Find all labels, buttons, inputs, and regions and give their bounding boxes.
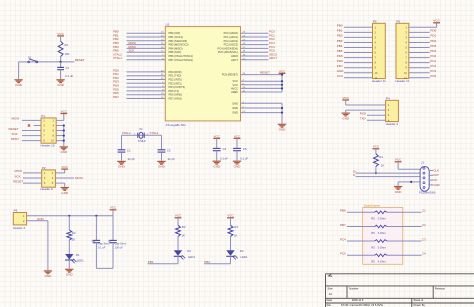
svg-text:22 pF: 22 pF [128, 157, 135, 161]
svg-text:PC4 (ADC4/SDA): PC4 (ADC4/SDA) [218, 46, 239, 50]
svg-text:GND: GND [232, 111, 238, 115]
svg-text:PD0 (RXD): PD0 (RXD) [169, 70, 182, 74]
svg-text:GND: GND [395, 190, 403, 194]
svg-text:AREF: AREF [231, 90, 238, 94]
svg-text:22 pF: 22 pF [168, 157, 175, 161]
svg-text:R5: R5 [371, 231, 375, 235]
svg-text:PC2 (ADC2): PC2 (ADC2) [224, 39, 239, 43]
svg-text:VCC: VCC [61, 109, 68, 113]
svg-text:MISO: MISO [15, 169, 23, 173]
svg-text:PD7 (AIN1): PD7 (AIN1) [169, 97, 182, 101]
svg-text:PD7: PD7 [113, 95, 119, 99]
svg-text:PC1 (ADC1): PC1 (ADC1) [224, 35, 239, 39]
svg-text:Header 6: Header 6 [41, 187, 54, 191]
svg-text:PD6: PD6 [337, 59, 343, 63]
svg-text:PC3: PC3 [430, 69, 436, 73]
svg-text:GND: GND [213, 165, 221, 169]
svg-text:PC6 (RESET): PC6 (RESET) [222, 73, 238, 77]
svg-text:Header 10: Header 10 [41, 144, 55, 148]
svg-text:GND: GND [61, 191, 69, 195]
svg-text:D-: D- [353, 173, 356, 177]
svg-text:PD2: PD2 [430, 39, 436, 43]
svg-text:PB0 (ICP): PB0 (ICP) [169, 31, 181, 35]
svg-text:RESET: RESET [260, 71, 270, 75]
svg-text:RESET: RESET [13, 179, 23, 183]
svg-text:Header 4: Header 4 [386, 122, 399, 126]
svg-text:C7: C7 [108, 239, 112, 243]
svg-text:100 uF: 100 uF [115, 245, 123, 249]
svg-text:C4: C4 [422, 252, 426, 256]
svg-text:GND: GND [37, 217, 45, 221]
svg-text:AVCC: AVCC [231, 86, 238, 90]
svg-text:D1: D1 [76, 253, 80, 257]
svg-text:PD1 (TXD): PD1 (TXD) [169, 74, 182, 78]
svg-text:S1: S1 [28, 56, 32, 60]
svg-text:XTAL1: XTAL1 [113, 56, 122, 60]
svg-text:RESET: RESET [75, 58, 85, 62]
svg-text:RXD: RXD [360, 112, 366, 116]
svg-text:GND: GND [60, 150, 68, 154]
svg-text:PD4 (XCK/T0): PD4 (XCK/T0) [169, 85, 186, 89]
svg-text:R5: R5 [371, 217, 375, 221]
svg-text:VCC: VCC [175, 214, 182, 218]
svg-text:ADC7: ADC7 [269, 56, 277, 60]
svg-text:PC0 (ADC0): PC0 (ADC0) [224, 31, 239, 35]
svg-text:VCC: VCC [110, 206, 117, 210]
svg-text:ATmega8L-8AI: ATmega8L-8AI [166, 123, 186, 127]
svg-text:PD4: PD4 [430, 49, 436, 53]
svg-text:PD5 (T1): PD5 (T1) [169, 89, 180, 93]
svg-text:PC1: PC1 [430, 59, 436, 63]
svg-text:GND: GND [337, 69, 345, 73]
svg-text:R3: R3 [234, 225, 238, 229]
svg-text:R4: R4 [379, 155, 383, 159]
svg-text:PD1: PD1 [430, 34, 436, 38]
svg-text:VCC: VCC [343, 96, 350, 100]
svg-text:10K: 10K [65, 52, 70, 56]
svg-text:SCK: SCK [12, 132, 18, 136]
svg-text:VCC: VCC [233, 79, 239, 83]
svg-text:GND: GND [45, 274, 53, 278]
svg-text:Title: Title [328, 274, 333, 278]
svg-text:C2: C2 [127, 148, 131, 152]
svg-text:PB1: PB1 [337, 29, 343, 33]
svg-text:PB7: PB7 [340, 223, 346, 227]
svg-text:LED1: LED1 [241, 255, 248, 259]
svg-text:PB2 (SS/OC1B): PB2 (SS/OC1B) [169, 39, 188, 43]
svg-text:PB7 (XTAL2/TOSC2): PB7 (XTAL2/TOSC2) [169, 58, 194, 62]
svg-text:VCC: VCC [234, 134, 241, 138]
svg-text:PB4 (MISO): PB4 (MISO) [169, 46, 183, 50]
svg-text:VCC: VCC [227, 214, 234, 218]
svg-text:2008-11-5: 2008-11-5 [352, 298, 364, 302]
svg-text:0.1 uF: 0.1 uF [220, 156, 228, 160]
svg-text:P6: P6 [396, 19, 400, 23]
svg-text:VCC: VCC [233, 83, 239, 87]
svg-text:XTAL2: XTAL2 [122, 131, 131, 135]
svg-text:Date: Date [327, 298, 333, 302]
svg-text:C1: C1 [422, 209, 426, 213]
svg-text:P5: P5 [373, 19, 377, 23]
svg-text:GND: GND [66, 273, 74, 277]
svg-text:PB5 (SCK): PB5 (SCK) [169, 50, 182, 54]
svg-text:RESET: RESET [9, 127, 19, 131]
svg-text:J1: J1 [421, 161, 424, 165]
svg-text:PD6 (AIN0): PD6 (AIN0) [169, 93, 182, 97]
svg-text:C2: C2 [422, 223, 426, 227]
svg-text:PB2: PB2 [337, 34, 343, 38]
svg-text:Header 2: Header 2 [13, 226, 26, 230]
svg-text:VCC: VCC [57, 32, 64, 36]
svg-text:PC3 (ADC3): PC3 (ADC3) [224, 43, 239, 47]
svg-text:ADC6: ADC6 [231, 54, 238, 58]
svg-text:NC: NC [433, 178, 437, 182]
svg-text:PD5: PD5 [337, 54, 343, 58]
svg-text:Revision: Revision [435, 287, 446, 291]
svg-text:1K: 1K [381, 164, 385, 168]
svg-text:1K: 1K [181, 234, 185, 238]
svg-text:GND: GND [232, 101, 238, 105]
svg-text:VCC: VCC [214, 134, 221, 138]
svg-text:PB6 (XTAL1/TOSC1): PB6 (XTAL1/TOSC1) [169, 54, 194, 58]
svg-text:P2: P2 [42, 166, 46, 170]
svg-text:0.1 uF: 0.1 uF [98, 245, 106, 249]
svg-text:A4: A4 [329, 292, 333, 296]
svg-text:VCC: VCC [373, 145, 380, 149]
svg-text:PD0: PD0 [430, 29, 436, 33]
svg-text:GND: GND [118, 165, 126, 169]
svg-text:PB1 (OC1A): PB1 (OC1A) [169, 35, 184, 39]
svg-text:C3: C3 [422, 237, 426, 241]
svg-text:GND: GND [15, 83, 23, 87]
svg-text:D2: D2 [240, 249, 244, 253]
svg-text:0 Ohm: 0 Ohm [378, 231, 387, 235]
svg-text:Size: Size [328, 287, 334, 291]
svg-text:R3: R3 [182, 225, 186, 229]
svg-text:D2: D2 [187, 249, 191, 253]
svg-text:PB3: PB3 [337, 39, 343, 43]
svg-text:C3: C3 [167, 148, 171, 152]
svg-text:VCC: VCC [62, 165, 69, 169]
svg-text:PB2: PB2 [204, 260, 210, 264]
svg-text:PD3: PD3 [430, 44, 436, 48]
svg-text:PC5 (ADC5/SCL): PC5 (ADC5/SCL) [218, 50, 238, 54]
svg-text:Sheet of: Sheet of [414, 298, 424, 302]
svg-text:PB0: PB0 [337, 24, 343, 28]
svg-text:1K: 1K [72, 238, 76, 242]
svg-text:SCK: SCK [129, 49, 135, 53]
svg-text:VCC: VCC [337, 74, 344, 78]
svg-text:VCC: VCC [433, 19, 440, 23]
svg-text:PC5: PC5 [430, 74, 436, 78]
svg-text:GND: GND [57, 83, 65, 87]
svg-text:PB4: PB4 [337, 44, 343, 48]
svg-text:P1: P1 [41, 114, 45, 118]
svg-text:Cap Semi: Cap Semi [115, 242, 127, 246]
svg-text:PC5: PC5 [340, 252, 346, 256]
svg-text:C5: C5 [243, 147, 247, 151]
svg-text:OptoSupres: OptoSupres [364, 203, 381, 207]
svg-text:PB3 (MOSI/OC2): PB3 (MOSI/OC2) [169, 43, 189, 47]
svg-text:C4: C4 [223, 147, 227, 151]
svg-text:TXD: TXD [360, 117, 366, 121]
svg-text:R2: R2 [72, 231, 76, 235]
svg-text:Header 11: Header 11 [396, 79, 410, 83]
svg-text:8 MHz: 8 MHz [138, 139, 146, 143]
svg-text:C6: C6 [92, 239, 96, 243]
svg-text:DAT: DAT [433, 173, 439, 177]
svg-text:PB5: PB5 [337, 49, 343, 53]
svg-text:ADC7: ADC7 [231, 58, 238, 62]
svg-text:0.1 uF: 0.1 uF [240, 156, 248, 160]
svg-text:GND: GND [342, 116, 350, 120]
svg-text:R5: R5 [371, 260, 375, 264]
svg-text:LED1: LED1 [77, 258, 84, 262]
svg-text:0 Ohm: 0 Ohm [378, 260, 387, 264]
svg-text:PD3 (INT1): PD3 (INT1) [169, 81, 182, 85]
svg-text:PC0: PC0 [430, 54, 436, 58]
svg-text:R1: R1 [65, 43, 69, 47]
svg-text:PC2: PC2 [430, 64, 436, 68]
svg-text:PD7: PD7 [337, 64, 343, 68]
svg-text:PB6: PB6 [340, 209, 346, 213]
svg-text:PB1: PB1 [148, 260, 154, 264]
svg-text:MISO: MISO [11, 137, 19, 141]
svg-text:SCK: SCK [15, 174, 21, 178]
svg-text:8.5 8b: Internal RC 8MHz V3 5.: 8.5 8b: Internal RC 8MHz V3 5.0V5s [341, 303, 384, 307]
svg-text:PC4: PC4 [340, 237, 346, 241]
svg-text:X1: X1 [139, 127, 143, 131]
svg-text:GND: GND [433, 183, 439, 187]
svg-text:File: File [327, 303, 332, 307]
svg-text:R5: R5 [371, 245, 375, 249]
svg-text:CLK: CLK [433, 168, 439, 172]
svg-text:U1: U1 [166, 23, 170, 27]
svg-text:0 Ohm: 0 Ohm [378, 245, 387, 249]
svg-text:Number: Number [349, 287, 358, 291]
svg-text:GND: GND [158, 165, 166, 169]
svg-text:PS2(MiniDIN): PS2(MiniDIN) [419, 191, 436, 195]
svg-text:GND: GND [234, 165, 242, 169]
svg-text:LED1: LED1 [188, 255, 195, 259]
svg-text:0 Ohm: 0 Ohm [378, 217, 387, 221]
svg-text:MOSI: MOSI [75, 176, 83, 180]
svg-text:P4: P4 [386, 96, 390, 100]
svg-text:VCC: VCC [395, 158, 402, 162]
svg-text:VCC: VCC [279, 69, 286, 73]
svg-text:P3: P3 [14, 208, 18, 212]
svg-text:MOSI: MOSI [12, 117, 20, 121]
svg-text:XTAL1: XTAL1 [150, 131, 159, 135]
svg-text:1K: 1K [234, 234, 238, 238]
svg-text:Drawn By: Drawn By [414, 303, 426, 307]
svg-text:GND: GND [232, 106, 238, 110]
svg-text:0.1 uF: 0.1 uF [65, 74, 73, 78]
svg-text:C1: C1 [66, 66, 70, 70]
svg-text:PD2 (INT0): PD2 (INT0) [169, 78, 182, 82]
svg-text:GND: GND [279, 128, 287, 132]
